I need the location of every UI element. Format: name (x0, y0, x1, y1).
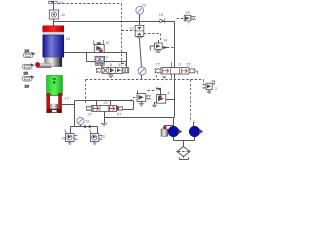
svg-text:10: 10 (105, 40, 110, 45)
svg-text:19: 19 (85, 119, 90, 124)
svg-text:26: 26 (25, 84, 30, 89)
svg-text:18: 18 (185, 10, 190, 15)
svg-text:2T: 2T (156, 62, 161, 67)
svg-text:12: 12 (130, 26, 135, 31)
svg-text:24: 24 (25, 48, 30, 53)
svg-text:4T: 4T (117, 112, 122, 117)
svg-text:5T: 5T (118, 62, 123, 67)
svg-text:21: 21 (104, 100, 109, 105)
svg-text:20: 20 (101, 134, 106, 139)
svg-text:17: 17 (65, 96, 70, 101)
svg-text:16: 16 (66, 36, 71, 41)
svg-text:22: 22 (142, 2, 147, 7)
svg-text:13: 13 (159, 12, 164, 17)
svg-text:1T: 1T (186, 62, 191, 67)
svg-text:14: 14 (163, 38, 168, 43)
svg-text:18: 18 (61, 136, 66, 141)
svg-text:2T: 2T (88, 112, 93, 117)
svg-text:15: 15 (59, 0, 64, 5)
svg-text:25: 25 (24, 71, 29, 76)
